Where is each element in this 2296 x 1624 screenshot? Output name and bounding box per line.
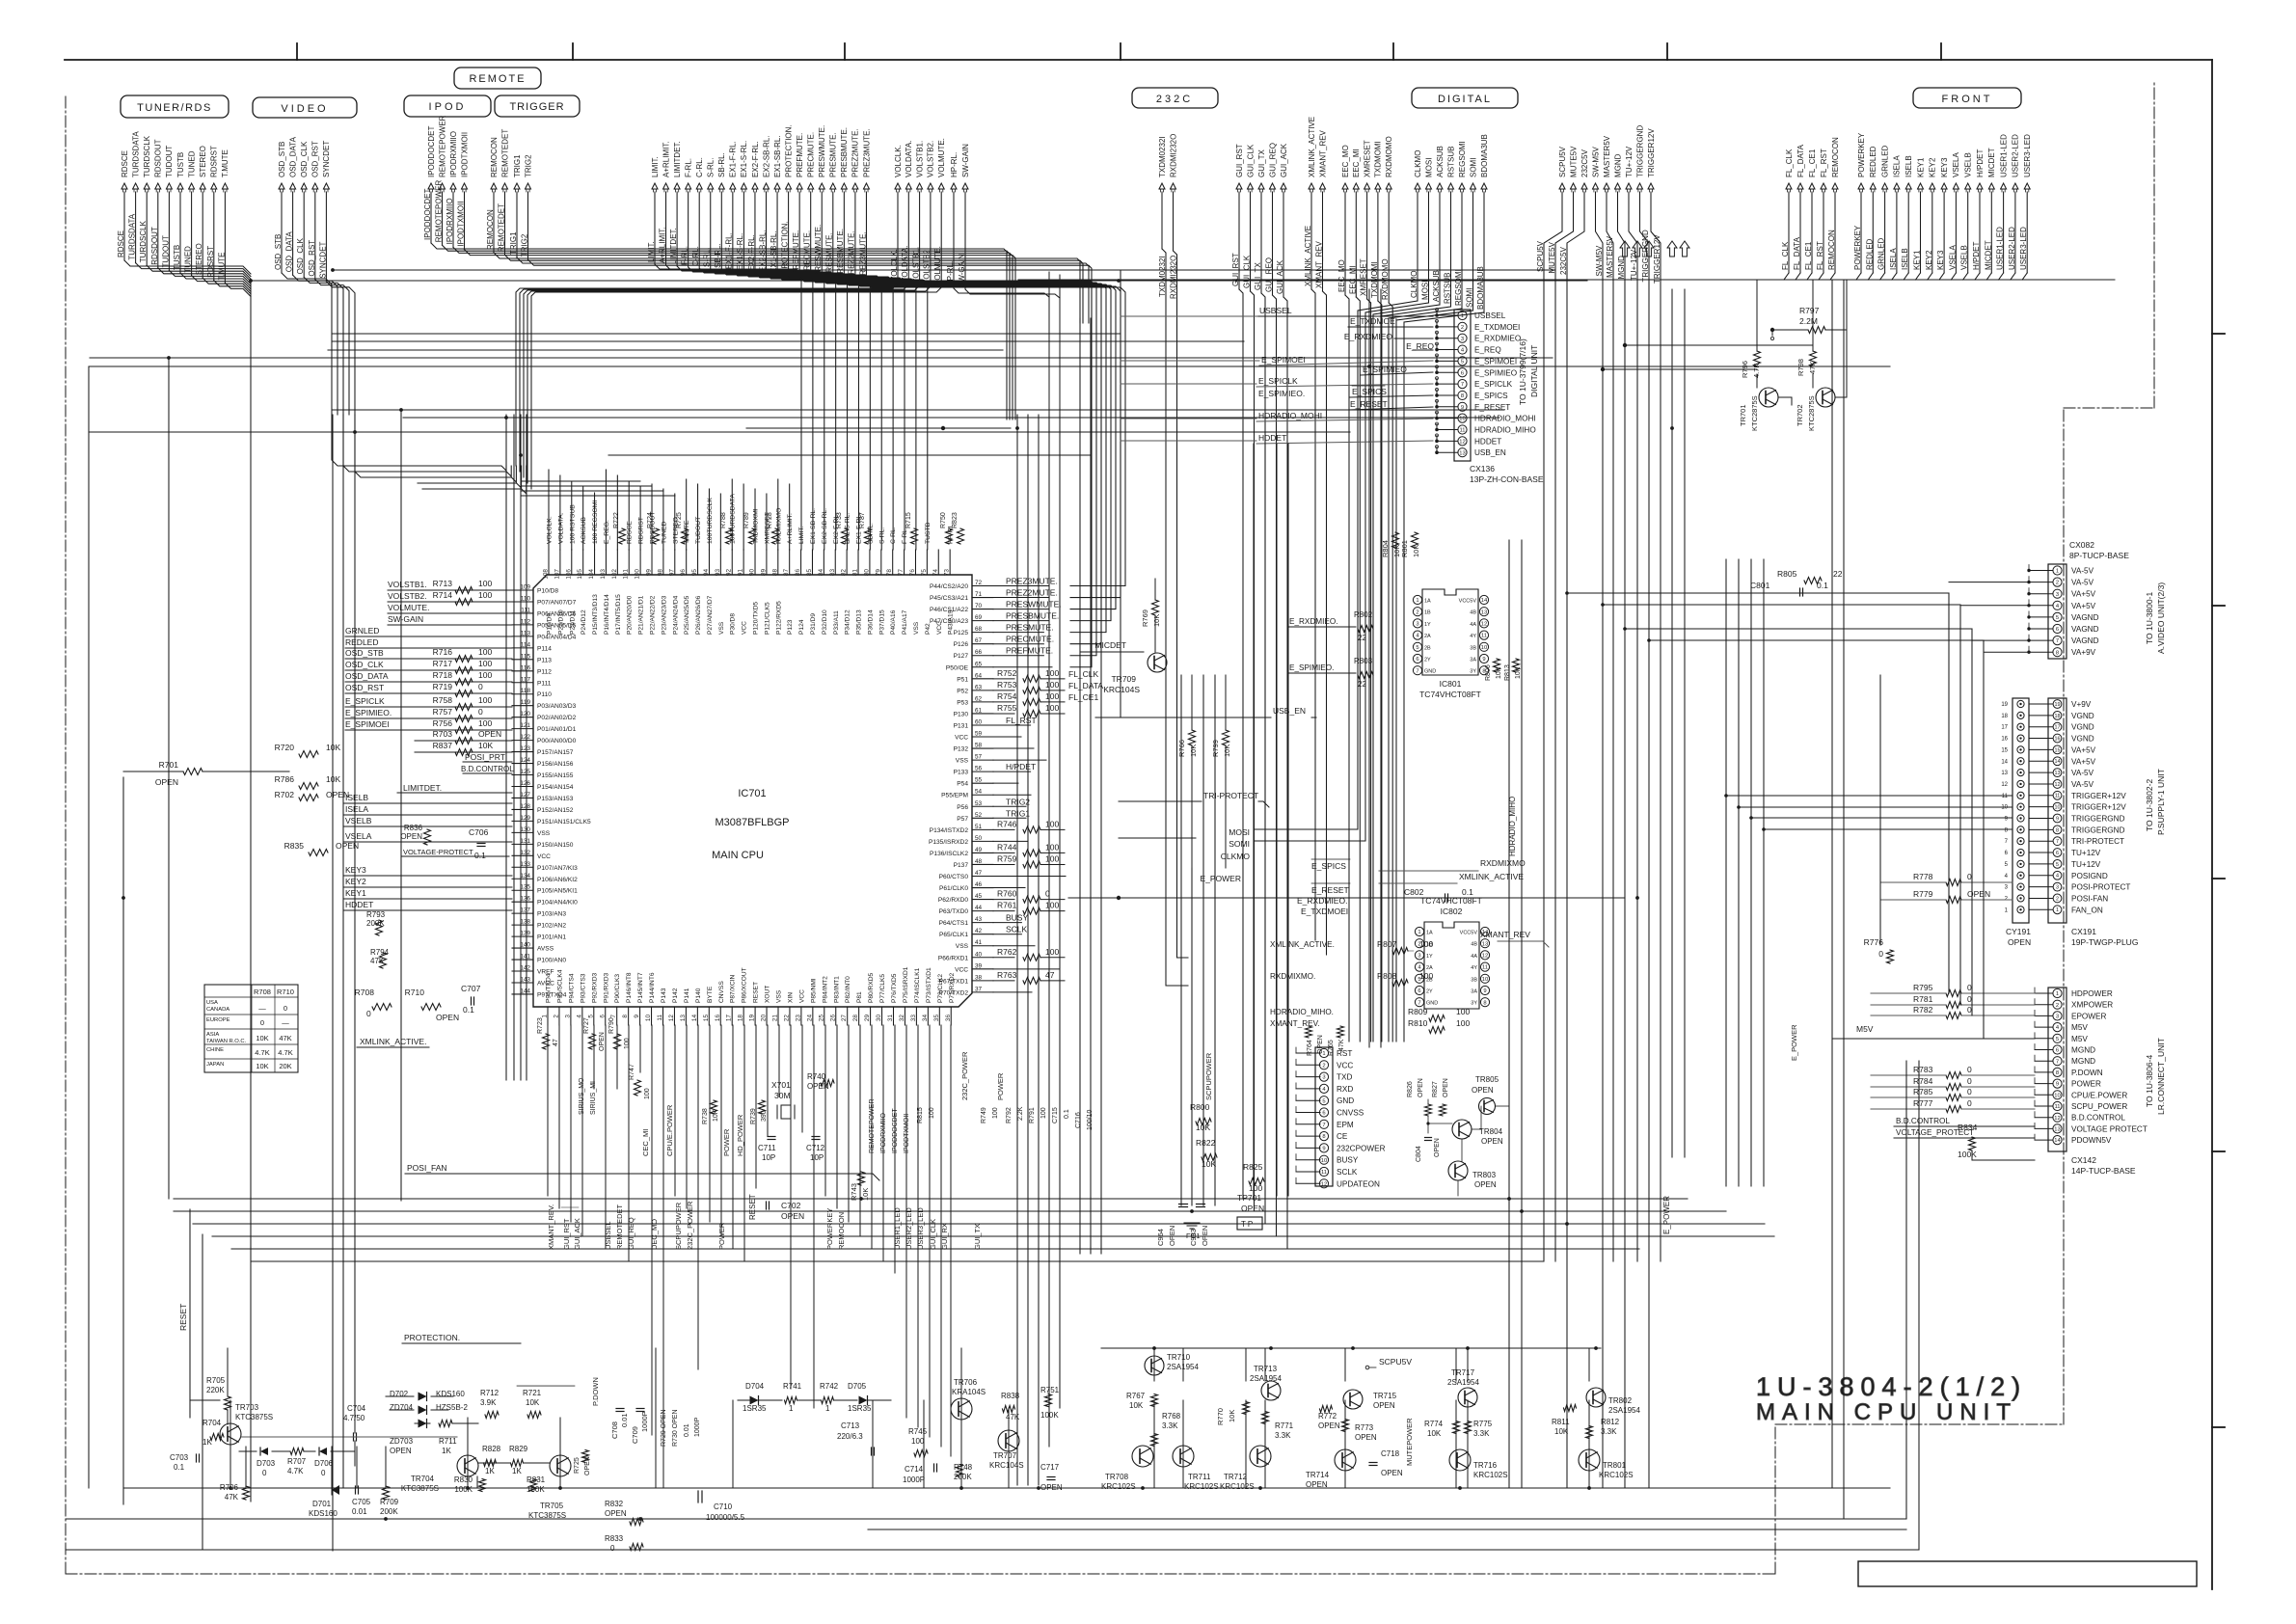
svg-text:14P-TUCP-BASE: 14P-TUCP-BASE: [2071, 1166, 2136, 1176]
svg-text:C703: C703: [170, 1453, 189, 1462]
svg-text:R828: R828: [482, 1445, 501, 1453]
transistor TR711 KRC102S: [1173, 1446, 1194, 1467]
svg-text:SB-RL.: SB-RL.: [717, 152, 726, 177]
svg-text:RSTSUB: RSTSUB: [1446, 147, 1455, 177]
net 232C5V: [1559, 149, 1589, 1488]
svg-text:108: 108: [543, 569, 550, 580]
svg-text:HDRADIO_MOHI: HDRADIO_MOHI: [1258, 411, 1322, 420]
svg-text:R755: R755: [997, 703, 1017, 713]
svg-text:TR803: TR803: [1472, 1171, 1497, 1179]
svg-text:19: 19: [2055, 702, 2061, 708]
svg-text:TR712: TR712: [1224, 1473, 1248, 1481]
svg-text:TURDSCLK: TURDSCLK: [139, 220, 148, 262]
svg-text:2B: 2B: [1424, 645, 1431, 651]
svg-text:C711: C711: [758, 1144, 776, 1152]
svg-text:29: 29: [864, 1015, 871, 1022]
svg-text:74: 74: [932, 569, 939, 577]
svg-text:UPDATEON: UPDATEON: [1337, 1179, 1380, 1188]
svg-text:FL_RST: FL_RST: [1006, 716, 1037, 725]
wire elbow: [1784, 273, 1789, 280]
CX082 feed wires: [1949, 582, 2029, 583]
net A+RLIMIT.: [658, 141, 813, 550]
svg-text:2: 2: [1322, 1063, 1325, 1069]
svg-text:100TURDSCLK: 100TURDSCLK: [707, 498, 714, 544]
svg-text:10K: 10K: [1228, 1410, 1236, 1422]
svg-text:XMLINK_ACTIVE: XMLINK_ACTIVE: [1459, 872, 1524, 881]
svg-text:SW-GAIN: SW-GAIN: [961, 144, 970, 177]
svg-text:2SA1954: 2SA1954: [1608, 1406, 1640, 1415]
svg-text:E_SPIMIEO.: E_SPIMIEO.: [345, 708, 392, 717]
svg-text:86: 86: [795, 569, 801, 577]
svg-text:P135/ISRXD2: P135/ISRXD2: [929, 839, 968, 846]
svg-text:KRC102S: KRC102S: [1599, 1471, 1634, 1479]
svg-text:R781: R781: [1913, 994, 1933, 1004]
svg-text:2: 2: [1461, 325, 1464, 331]
wire drop: [1367, 299, 1371, 1042]
svg-text:CY191: CY191: [2006, 927, 2031, 936]
svg-text:P41/A17: P41/A17: [902, 609, 908, 635]
svg-text:IPODTXMOII: IPODTXMOII: [904, 1114, 910, 1153]
svg-text:RESET: RESET: [748, 1194, 757, 1220]
svg-text:P103/AN3: P103/AN3: [537, 911, 566, 918]
svg-text:TRIGGER+12V: TRIGGER+12V: [2071, 803, 2126, 812]
svg-text:80: 80: [863, 569, 870, 577]
wire elbow: [1856, 273, 1861, 280]
net ISELB: [1901, 155, 1913, 273]
svg-text:MUTE5V: MUTE5V: [1569, 146, 1578, 177]
svg-text:VCC: VCC: [742, 621, 748, 635]
svg-text:13P-ZH-CON-BASE: 13P-ZH-CON-BASE: [1470, 474, 1544, 484]
svg-text:1U-3804-2(1/2): 1U-3804-2(1/2): [1756, 1372, 2027, 1401]
svg-text:GUI_TX: GUI_TX: [1257, 149, 1266, 177]
svg-text:ACKSUB: ACKSUB: [581, 517, 587, 544]
svg-text:VGND: VGND: [2071, 712, 2094, 720]
wire elbow: [1892, 273, 1897, 280]
svg-text:H/PDET: H/PDET: [1972, 242, 1981, 270]
svg-text:99: 99: [646, 569, 653, 577]
svg-text:SW-GAIN: SW-GAIN: [388, 614, 423, 624]
wire elbow: [282, 273, 332, 415]
svg-text:VOLSTB2.: VOLSTB2.: [923, 248, 932, 284]
svg-text:4.7/50: 4.7/50: [343, 1414, 365, 1422]
bus horizontal y291: [251, 280, 1587, 282]
wire elbow: [1999, 273, 2004, 280]
wire to pin: [388, 601, 512, 603]
svg-text:VCC: VCC: [1337, 1061, 1353, 1069]
svg-text:10K: 10K: [478, 741, 493, 750]
svg-text:9: 9: [1482, 657, 1485, 663]
net RDSDOUT: [150, 139, 163, 267]
svg-text:VOLSTB1.: VOLSTB1.: [915, 141, 924, 177]
svg-text:100: 100: [992, 1107, 999, 1119]
svg-text:3Y: 3Y: [1470, 669, 1476, 675]
svg-text:4.7K: 4.7K: [255, 1048, 269, 1057]
svg-text:PREFMUTE.: PREFMUTE.: [1006, 646, 1053, 656]
svg-text:TUNER/RDS: TUNER/RDS: [137, 102, 212, 114]
svg-text:C710: C710: [714, 1502, 733, 1511]
svg-text:M3087BFLBGP: M3087BFLBGP: [715, 817, 789, 828]
svg-text:0: 0: [262, 1469, 267, 1477]
svg-text:106: 106: [565, 569, 572, 580]
svg-text:VSS: VSS: [537, 830, 551, 837]
svg-text:MICDET: MICDET: [1094, 640, 1126, 650]
net TXDMOMI: [1370, 141, 1383, 301]
group box IPOD: [404, 95, 491, 117]
svg-text:XMRESET: XMRESET: [1360, 258, 1368, 296]
net SYNCDET: [318, 141, 331, 282]
svg-text:IC802: IC802: [1441, 907, 1463, 916]
svg-text:P152/AN152: P152/AN152: [537, 807, 574, 814]
svg-text:TUSTB: TUSTB: [925, 522, 932, 544]
svg-text:HDRADIO_MIHO: HDRADIO_MIHO: [1474, 426, 1536, 435]
svg-text:VA-5V: VA-5V: [2071, 579, 2094, 587]
resistor R748 200K: [957, 1465, 963, 1477]
svg-text:60: 60: [975, 718, 983, 725]
svg-text:5: 5: [2056, 1037, 2059, 1042]
svg-text:CPU/E.POWER: CPU/E.POWER: [2071, 1091, 2127, 1099]
svg-text:3: 3: [1416, 621, 1418, 627]
svg-text:RDSCE: RDSCE: [627, 521, 634, 544]
svg-text:R723: R723: [537, 1017, 544, 1034]
svg-text:P142: P142: [672, 988, 679, 1003]
svg-text:10K: 10K: [1412, 545, 1420, 557]
svg-text:SB-RL.: SB-RL.: [714, 243, 722, 268]
svg-text:10K: 10K: [1496, 666, 1502, 679]
svg-text:47K: 47K: [279, 1034, 291, 1042]
wire elbow: [192, 276, 251, 289]
svg-text:62: 62: [975, 695, 983, 702]
svg-text:TR710: TR710: [1167, 1353, 1191, 1362]
svg-text:REMOTE: REMOTE: [469, 73, 526, 85]
svg-text:CLKMO: CLKMO: [1414, 150, 1422, 177]
net TRIGGERGND: [1635, 125, 1650, 1488]
net USER2-LED: [2008, 134, 2020, 273]
svg-text:117: 117: [521, 676, 531, 683]
svg-text:101: 101: [623, 569, 630, 580]
svg-text:R785: R785: [1913, 1087, 1933, 1096]
svg-text:ACKSUB: ACKSUB: [1436, 146, 1445, 177]
svg-text:21: 21: [772, 1015, 779, 1022]
svg-text:P23/D11: P23/D11: [569, 609, 576, 635]
svg-text:IPOD: IPOD: [429, 101, 467, 113]
svg-text:EX2-SB-RL.: EX2-SB-RL.: [762, 135, 770, 177]
svg-text:CX191: CX191: [2071, 927, 2096, 936]
svg-text:P125: P125: [954, 630, 969, 636]
svg-text:BYTE: BYTE: [707, 986, 714, 1003]
svg-text:18: 18: [2055, 714, 2061, 719]
svg-text:P61/CLK0: P61/CLK0: [939, 885, 968, 892]
TR701 TR702 feed verticals: [1756, 280, 1758, 351]
svg-text:P123: P123: [787, 619, 794, 635]
svg-text:VIDEO: VIDEO: [281, 103, 328, 115]
svg-text:R707: R707: [287, 1457, 307, 1466]
wire to pin: [345, 706, 512, 708]
svg-text:R778: R778: [1913, 872, 1933, 881]
svg-text:18: 18: [738, 1015, 744, 1022]
svg-text:118: 118: [521, 688, 531, 694]
svg-text:XIN: XIN: [787, 992, 794, 1003]
svg-text:R764: R764: [1307, 1040, 1313, 1056]
svg-text:10: 10: [2055, 805, 2061, 811]
svg-text:VA+9V: VA+9V: [2071, 648, 2096, 657]
resistor R715 100: [911, 528, 918, 544]
resistor R813 10K: [1513, 659, 1520, 672]
net REGSOMI: [1454, 141, 1467, 309]
svg-text:17: 17: [726, 1015, 733, 1022]
transistor TR709 KRC104S MICDET: [1148, 653, 1167, 672]
svg-text:17: 17: [2001, 725, 2008, 731]
svg-text:100TURDSDATA: 100TURDSDATA: [730, 494, 737, 544]
svg-text:R779: R779: [1913, 889, 1933, 899]
transistor TR706 KRA104S: [951, 1398, 972, 1420]
wire elbow: [1963, 273, 1968, 280]
svg-text:VCC: VCC: [798, 989, 805, 1003]
transistor TR702 KTC2875S: [1816, 388, 1835, 407]
svg-text:E_RXDMIEO.: E_RXDMIEO.: [1289, 617, 1338, 626]
svg-text:13: 13: [2001, 771, 2008, 776]
svg-text:IPODRXMIIO: IPODRXMIIO: [446, 198, 454, 244]
svg-text:REGSOMI: REGSOMI: [1454, 269, 1463, 306]
svg-text:USBSEL: USBSEL: [1474, 311, 1506, 320]
svg-text:EEC_MO: EEC_MO: [1337, 259, 1346, 292]
IC701 right side nets and resistors: [993, 577, 1103, 992]
net SOMI: [1466, 158, 1478, 311]
svg-text:GND: GND: [1337, 1096, 1354, 1105]
svg-text:TRI-PROTECT: TRI-PROTECT: [1203, 791, 1258, 800]
svg-text:D704: D704: [745, 1382, 765, 1391]
svg-text:T.MUTE: T.MUTE: [221, 149, 230, 177]
resistor R830 100K: [479, 1479, 486, 1492]
svg-text:R754: R754: [997, 691, 1017, 701]
resistor R722 100: [619, 528, 626, 544]
resistor R788 100: [726, 528, 733, 544]
svg-text:E_SPICLK: E_SPICLK: [1474, 380, 1513, 389]
svg-text:5: 5: [1416, 645, 1418, 651]
svg-text:P57: P57: [957, 816, 968, 823]
svg-text:VOLMUTE.: VOLMUTE.: [937, 138, 946, 177]
svg-text:R827: R827: [1432, 1081, 1439, 1097]
net VSELA: [1948, 152, 1960, 273]
svg-text:105: 105: [577, 569, 583, 580]
svg-text:HDRADIO_MIHO.: HDRADIO_MIHO.: [1270, 1008, 1334, 1016]
svg-text:110: 110: [521, 595, 531, 602]
resistor R717 100: [455, 667, 473, 674]
svg-text:P24/AN24/D4: P24/AN24/D4: [672, 595, 679, 635]
svg-text:P130: P130: [954, 711, 969, 717]
svg-text:10K: 10K: [1554, 1427, 1569, 1436]
net VOLSTB1.: [524, 141, 924, 477]
svg-text:24: 24: [806, 1015, 813, 1022]
svg-text:73: 73: [944, 569, 951, 577]
svg-text:2Y: 2Y: [1424, 658, 1431, 663]
wire drop: [1239, 289, 1243, 1199]
svg-text:TR703: TR703: [235, 1403, 259, 1412]
svg-text:16: 16: [2055, 736, 2061, 742]
svg-text:R784: R784: [1913, 1076, 1933, 1086]
svg-text:6: 6: [1418, 988, 1420, 994]
net PREZ3MUTE.: [858, 128, 1125, 585]
svg-text:7: 7: [1418, 1000, 1420, 1006]
svg-text:232C_POWER: 232C_POWER: [686, 1201, 694, 1250]
svg-text:0: 0: [1967, 1065, 1972, 1074]
net REMOTEPOWER: [435, 115, 447, 245]
net KEY3: [1936, 157, 1949, 273]
svg-text:P35/D13: P35/D13: [856, 609, 863, 635]
IC701 top pin net labels: [547, 470, 955, 550]
svg-text:3.3K: 3.3K: [1275, 1431, 1291, 1440]
wire elbow: [315, 280, 349, 415]
bus horizontal y1607: [66, 1549, 1919, 1551]
svg-text:E_RXDMIEO: E_RXDMIEO: [1474, 335, 1521, 343]
svg-text:IC801: IC801: [1440, 679, 1462, 689]
svg-text:8: 8: [1483, 1000, 1486, 1006]
svg-text:232C_POWER: 232C_POWER: [960, 1051, 969, 1100]
net RXDMI232O: [1169, 134, 1177, 251]
svg-text:P133: P133: [954, 770, 969, 776]
net PRESWMUTE.: [814, 125, 1106, 633]
svg-text:TC74VHCT08FT: TC74VHCT08FT: [1419, 690, 1481, 699]
svg-text:VA+5V: VA+5V: [2071, 590, 2096, 599]
svg-text:POSI-PROTECT: POSI-PROTECT: [2071, 883, 2130, 892]
svg-text:47K: 47K: [1338, 1039, 1345, 1051]
svg-text:KEY2: KEY2: [1925, 250, 1933, 270]
svg-text:VAGND: VAGND: [2071, 636, 2099, 645]
svg-text:EX1-F-RL.: EX1-F-RL.: [725, 232, 734, 269]
svg-text:R710: R710: [405, 988, 425, 997]
svg-text:KEY3: KEY3: [345, 865, 366, 875]
bus verticals left: [123, 283, 527, 1551]
svg-text:TXDM0232I: TXDM0232I: [1158, 256, 1167, 297]
svg-text:P96/TXD4: P96/TXD4: [546, 973, 553, 1003]
svg-text:R823: R823: [952, 512, 959, 528]
wire elbow: [180, 273, 251, 286]
svg-text:232C: 232C: [1156, 94, 1193, 105]
svg-text:P100/AN0: P100/AN0: [537, 958, 566, 964]
svg-text:100K: 100K: [1958, 1150, 1977, 1159]
svg-text:SCPU5V: SCPU5V: [1536, 240, 1545, 272]
svg-text:A+RLIMIT.: A+RLIMIT.: [787, 513, 794, 544]
bus horizontal y448: [90, 431, 1350, 433]
svg-text:A+RLIMIT.: A+RLIMIT.: [658, 227, 666, 263]
svg-text:E_RXDMIEO: E_RXDMIEO: [1344, 332, 1392, 341]
FRONT group bus: [1018, 279, 2115, 281]
svg-text:ISELB: ISELB: [345, 793, 368, 802]
svg-text:HP-RL.: HP-RL.: [946, 261, 955, 286]
svg-text:C705: C705: [352, 1498, 371, 1506]
svg-text:VOLMUTE.: VOLMUTE.: [388, 603, 429, 612]
svg-text:KEY2: KEY2: [345, 877, 366, 886]
svg-text:R725: R725: [574, 1457, 581, 1474]
svg-text:E_SPIMOEI: E_SPIMOEI: [1474, 357, 1517, 365]
svg-text:IPODRXMIIO: IPODRXMIIO: [449, 131, 458, 177]
svg-text:ISELA: ISELA: [1889, 248, 1898, 270]
svg-text:CNVSS: CNVSS: [718, 981, 725, 1003]
svg-text:143: 143: [520, 976, 530, 983]
svg-text:OPEN: OPEN: [436, 1013, 459, 1022]
svg-text:P50/OE: P50/OE: [946, 664, 969, 671]
svg-text:REGSOMI: REGSOMI: [1458, 141, 1467, 177]
svg-text:RXD: RXD: [1337, 1085, 1353, 1094]
svg-text:2: 2: [1416, 609, 1418, 615]
svg-text:95: 95: [691, 569, 698, 577]
svg-text:R761: R761: [997, 901, 1017, 910]
svg-text:1: 1: [2056, 569, 2059, 575]
svg-text:2SA1954: 2SA1954: [1447, 1378, 1479, 1387]
svg-text:TRIGGER+12V: TRIGGER+12V: [2071, 792, 2126, 800]
svg-text:POWERKEY: POWERKEY: [1857, 132, 1866, 177]
svg-text:TRI-PROTECT: TRI-PROTECT: [2071, 837, 2124, 846]
svg-text:P132: P132: [954, 746, 969, 753]
svg-text:137: 137: [520, 907, 530, 914]
svg-text:PRESMUTE.: PRESMUTE.: [829, 132, 838, 177]
svg-text:KRC104S: KRC104S: [1103, 685, 1140, 694]
svg-text:TRIG1: TRIG1: [513, 154, 522, 177]
net S-RL.: [703, 158, 859, 550]
svg-text:USBSEL: USBSEL: [1259, 306, 1292, 315]
revision box bottom right: [1858, 1561, 2197, 1586]
svg-text:0: 0: [366, 1009, 371, 1018]
net REDLED: [1865, 146, 1877, 273]
svg-text:KRC102S: KRC102S: [1220, 1482, 1255, 1491]
svg-text:SW-M5V: SW-M5V: [1591, 146, 1600, 177]
svg-text:FL_DATA: FL_DATA: [1068, 681, 1103, 690]
net LIMITDET.: [669, 141, 824, 550]
net SCPU5V: [1536, 146, 1567, 1261]
svg-text:0: 0: [284, 1004, 287, 1013]
svg-text:0.1: 0.1: [1817, 581, 1828, 590]
net B.D.CONTROL: [463, 772, 512, 774]
resistor R711 1K: [439, 1421, 452, 1427]
svg-text:RDSDOUT: RDSDOUT: [150, 227, 159, 265]
svg-text:1SR35: 1SR35: [743, 1404, 767, 1413]
svg-text:STEREO: STEREO: [195, 243, 203, 275]
svg-text:R749: R749: [981, 1107, 987, 1123]
wire elbow: [1975, 273, 1980, 280]
svg-text:R806: R806: [1485, 664, 1492, 681]
svg-text:C714: C714: [905, 1465, 924, 1474]
svg-text:VOLTAGE-PROTECT: VOLTAGE-PROTECT: [403, 848, 473, 856]
svg-text:R724: R724: [647, 512, 654, 528]
svg-text:C706: C706: [469, 827, 489, 837]
svg-text:PREZ3MUTE.: PREZ3MUTE.: [858, 231, 867, 281]
svg-text:13: 13: [1459, 450, 1465, 456]
svg-text:7: 7: [1461, 382, 1464, 388]
svg-text:34: 34: [922, 1015, 929, 1022]
svg-text:8: 8: [1322, 1134, 1325, 1140]
svg-text:P27/AN27/D7: P27/AN27/D7: [707, 595, 714, 635]
resistor R756 100: [455, 727, 473, 734]
transistor TR705 KTC3875S: [550, 1455, 571, 1476]
svg-text:TRIG2: TRIG2: [524, 154, 532, 177]
svg-text:0.01: 0.01: [352, 1507, 367, 1516]
svg-text:MASTER5V: MASTER5V: [1603, 135, 1611, 177]
net TRIG1: [509, 154, 522, 257]
transistor TR802 2SA1954: [1586, 1388, 1606, 1407]
svg-text:P154/AN154: P154/AN154: [537, 784, 574, 791]
capacitor C707 0.1: [471, 997, 473, 1005]
analog block mid rail: [190, 1399, 220, 1401]
svg-text:R746: R746: [997, 819, 1017, 828]
svg-text:OPEN: OPEN: [2008, 937, 2031, 947]
svg-text:P105/AN5/KI1: P105/AN5/KI1: [537, 888, 578, 895]
svg-text:R791: R791: [1029, 1107, 1036, 1123]
svg-text:10K: 10K: [713, 1109, 719, 1122]
svg-text:10P: 10P: [762, 1153, 775, 1162]
wire to pin: [345, 729, 512, 731]
svg-text:C715: C715: [1052, 1107, 1059, 1123]
svg-text:REMOCON: REMOCON: [1831, 137, 1840, 177]
svg-text:TU+12V: TU+12V: [2071, 849, 2101, 857]
